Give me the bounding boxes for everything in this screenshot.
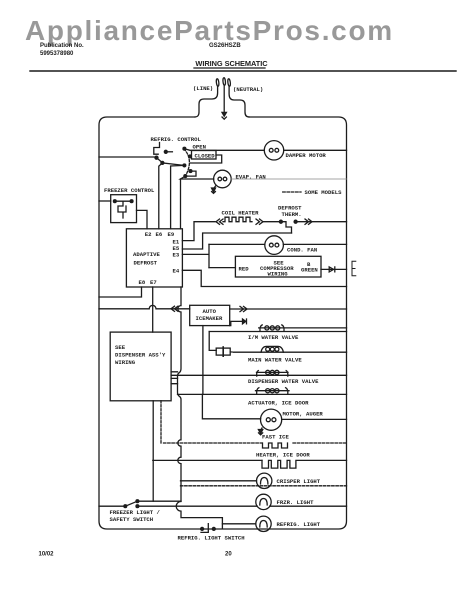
svg-text:EVAP. FAN: EVAP. FAN (236, 174, 266, 181)
wire E7 down to dispenser box (152, 287, 154, 332)
wire E4 to lower bus (182, 270, 346, 286)
wire E5 to therm leg (182, 233, 291, 249)
refrig light row (222, 523, 255, 525)
wire contact to E9 vertical (171, 165, 185, 228)
svg-text:Publication No.: Publication No. (40, 43, 84, 49)
wire defrost therm to right rail (297, 221, 347, 223)
freezer control box (111, 195, 137, 223)
svg-text:FREEZER CONTROL: FREEZER CONTROL (104, 187, 155, 194)
refrig control switch contacts (164, 150, 167, 153)
refrig light (256, 516, 271, 531)
crisper light row (181, 480, 257, 482)
motor auger right wire (282, 418, 347, 420)
plug prong right (227, 79, 230, 87)
vertical bus from adaptive defrost bottom (176, 287, 222, 529)
dashed switch arc (184, 149, 189, 176)
svg-text:GREEN: GREEN (301, 267, 318, 274)
wire node to RED (209, 267, 235, 269)
schematic border (99, 117, 347, 529)
evap fan (214, 170, 232, 188)
some models dashed (283, 191, 301, 193)
svg-text:OPEN: OPEN (193, 144, 206, 151)
svg-text:MAIN WATER VALVE: MAIN WATER VALVE (248, 357, 302, 364)
I/M valve coil (259, 327, 347, 329)
wire lower contact to evap fan (181, 176, 214, 179)
border bump right (NEUTRAL) lead (229, 87, 249, 117)
wire contact to E6 vertical (159, 163, 163, 229)
svg-text:CLOSED: CLOSED (195, 153, 216, 160)
actuator ice door row (178, 393, 347, 395)
svg-text:ADAPTIVE: ADAPTIVE (133, 251, 160, 258)
dispenser box bottom wires (152, 401, 154, 501)
svg-text:E4: E4 (173, 268, 180, 275)
svg-text:E6: E6 (156, 231, 163, 238)
svg-text:(NEUTRAL): (NEUTRAL) (233, 86, 263, 93)
svg-text:HEATER, ICE DOOR: HEATER, ICE DOOR (256, 452, 310, 459)
ground wire from middle prong (223, 86, 225, 113)
svg-text:5995378980: 5995378980 (40, 51, 74, 57)
connector bracket outside right rail (352, 261, 356, 276)
svg-text:REFRIG. LIGHT SWITCH: REFRIG. LIGHT SWITCH (178, 534, 245, 541)
svg-text:RED: RED (239, 266, 250, 273)
arrows on defrost wire (305, 219, 312, 224)
svg-text:MOTOR, AUGER: MOTOR, AUGER (283, 410, 324, 417)
icemaker feed bus with hop over E7 (99, 305, 190, 308)
frzr light (256, 494, 271, 509)
crisper dashed separator (181, 485, 347, 487)
wire switch branch into adaptive defrost (180, 179, 182, 229)
border bump left (LINE) lead (195, 87, 218, 117)
svg-text:COND. FAN: COND. FAN (287, 247, 317, 254)
evap fan ground (214, 186, 216, 189)
adaptive defrost box (126, 229, 182, 287)
icemaker lower out arrow (230, 321, 243, 325)
svg-text:REFRIG. CONTROL: REFRIG. CONTROL (151, 136, 202, 143)
motor auger ground (261, 428, 262, 431)
main water valve feed from icemaker (209, 332, 216, 351)
dispenser water valve row (171, 374, 346, 376)
wire from CLOSED box to lower contact (185, 155, 221, 176)
wire E8 to left rail (99, 287, 142, 297)
svg-text:SOME MODELS: SOME MODELS (305, 189, 343, 196)
I/M water valve bus (209, 331, 346, 333)
ground arrow (222, 112, 226, 116)
wire switch upper contact to bus (137, 500, 181, 502)
switch arm wires (154, 143, 160, 155)
dispenser box output stubs (171, 372, 177, 384)
auto icemaker box (190, 305, 230, 325)
wire: left rail to refrig control (99, 156, 156, 158)
svg-text:E8: E8 (139, 279, 146, 286)
svg-text:GS26HSZB: GS26HSZB (209, 43, 241, 49)
svg-text:ICEMAKER: ICEMAKER (196, 315, 223, 322)
wire left rail to freezer control (99, 200, 111, 202)
coil heater right arrows (256, 219, 263, 224)
main water valve row (230, 351, 346, 353)
motor auger (261, 409, 282, 430)
plug prong middle (223, 78, 226, 86)
svg-text:AppliancePartsPros.com: AppliancePartsPros.com (25, 15, 394, 46)
cond fan (265, 236, 284, 255)
svg-text:WIRING SCHEMATIC: WIRING SCHEMATIC (195, 59, 268, 68)
coil heater left arrows (216, 219, 223, 224)
heater ice door element (262, 460, 296, 468)
wire OPEN contact to damper line (184, 149, 264, 151)
svg-text:(LINE): (LINE) (193, 85, 213, 92)
dispenser valve coil (257, 371, 289, 373)
svg-text:DEFROST: DEFROST (134, 260, 158, 267)
fast ice row dashed (164, 442, 347, 444)
wire freezer control to E2 (137, 210, 148, 228)
coil heater element (223, 217, 252, 222)
inline connector (216, 348, 223, 355)
svg-text:DISPENSER ASS'Y: DISPENSER ASS'Y (115, 352, 166, 359)
icemaker down wire (bus C) (202, 326, 204, 395)
svg-text:E2: E2 (145, 231, 152, 238)
main valve coil (261, 346, 283, 352)
svg-text:ACTUATOR, ICE DOOR: ACTUATOR, ICE DOOR (248, 400, 309, 407)
see dispenser assy wiring box (110, 332, 171, 401)
svg-text:FAST ICE: FAST ICE (262, 434, 289, 441)
svg-text:WIRING: WIRING (115, 359, 136, 366)
svg-text:DAMPER MOTOR: DAMPER MOTOR (286, 152, 327, 159)
svg-text:THERM.: THERM. (282, 211, 302, 218)
motor auger feed (202, 394, 260, 418)
svg-text:I/M WATER VALVE: I/M WATER VALVE (248, 334, 299, 341)
wire E3 branch node (182, 244, 209, 267)
svg-text:FRZR. LIGHT: FRZR. LIGHT (277, 499, 315, 506)
refrig light switch (201, 527, 204, 530)
svg-text:COIL HEATER: COIL HEATER (222, 210, 260, 217)
crisper light (257, 473, 272, 488)
fast ice element (263, 443, 288, 448)
freezer light safety switch (124, 505, 127, 508)
svg-text:E7: E7 (150, 279, 157, 286)
svg-text:E9: E9 (168, 231, 175, 238)
svg-text:DISPENSER WATER VALVE: DISPENSER WATER VALVE (248, 378, 319, 385)
defrost therm contacts (279, 220, 282, 223)
plug prong left (216, 79, 219, 87)
freezer control contacts (113, 200, 116, 203)
svg-text:SEE: SEE (115, 344, 126, 351)
damper motor (264, 141, 283, 160)
wire coil heater to defrost therm (263, 221, 281, 223)
icemaker feed arrows (171, 306, 178, 311)
see compressor wiring box (235, 256, 321, 277)
heater ice door row (153, 459, 347, 461)
svg-text:CRISPER LIGHT: CRISPER LIGHT (277, 478, 321, 485)
wire GREEN to right rail with arrow (321, 268, 347, 270)
svg-text:E3: E3 (173, 252, 180, 259)
freezer control thermostat squiggle (118, 201, 126, 218)
svg-text:20: 20 (225, 551, 232, 557)
svg-text:AUTO: AUTO (203, 308, 217, 315)
svg-text:REFRIG. LIGHT: REFRIG. LIGHT (277, 521, 321, 528)
title underline (194, 67, 265, 69)
cond fan row (209, 243, 347, 245)
icemaker out to right rail (230, 308, 347, 310)
header rule (30, 70, 456, 72)
svg-text:10/02: 10/02 (39, 551, 55, 557)
actuator coil (256, 390, 290, 392)
label CLOSED box (192, 151, 217, 160)
svg-text:SAFETY SWITCH: SAFETY SWITCH (110, 516, 154, 523)
svg-text:WIRING: WIRING (268, 271, 289, 278)
wire E1 to coil heater (182, 222, 215, 241)
frzr light row (137, 505, 346, 507)
